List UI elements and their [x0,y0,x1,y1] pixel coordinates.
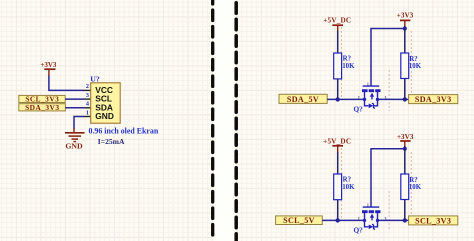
svg-text:+3V3: +3V3 [397,133,414,141]
wire bus left segment [327,98,364,100]
svg-text:R?: R? [409,56,418,63]
svg-text:+5V_DC: +5V_DC [323,17,351,25]
compile marker dash right of Q2 [388,191,390,231]
svg-text:3: 3 [385,96,387,100]
wire +3V3 to VCC pin [49,76,84,91]
svg-text:Q?: Q? [354,226,364,235]
pin number marks Q1 [358,82,387,100]
wire gate feed (bottom) [371,149,405,208]
resistor R2 10K [401,53,422,79]
pin 3 SCL [84,92,91,99]
svg-text:1: 1 [86,109,89,116]
junction gate feed [403,26,407,30]
wire gate feed [371,29,405,87]
power +3V3 (bottom right) [397,133,414,147]
pin 2 VCC [84,83,91,90]
power +5V_DC (top) [323,17,351,32]
svg-text:0.96 inch oled Ekran: 0.96 inch oled Ekran [89,127,159,136]
pin 1 GND [84,109,91,116]
power +3V3 (left section) [40,61,57,76]
svg-text:SCL_5V: SCL_5V [283,216,315,225]
compile marker dash near R4 [410,152,412,220]
svg-text:2: 2 [358,217,360,221]
svg-text:+5V_DC: +5V_DC [323,137,351,145]
wire +3V3 to junction (bottom) [404,146,406,150]
svg-text:1: 1 [367,82,369,86]
junction at R4/bus [403,218,407,222]
port SCL_3V3 (left) [19,95,65,104]
junction gate feed (bottom) [403,147,407,151]
svg-text:10K: 10K [342,184,355,191]
svg-text:SDA_5V: SDA_5V [287,95,319,104]
compile marker dash near R2 [410,31,412,99]
svg-text:R?: R? [409,177,418,184]
svg-text:10K: 10K [342,63,355,70]
svg-text:SCL_3V3: SCL_3V3 [415,216,451,225]
svg-text:1: 1 [367,203,369,207]
transistor Q1 (MOSFET) [362,86,381,108]
wire bus left segment (bottom) [322,219,364,221]
svg-text:I=25mA: I=25mA [98,137,125,146]
background gap between sheets [213,0,237,241]
wire +5V_DC to R1 [337,31,339,53]
resistor R1 10K [334,53,355,79]
pin number marks Q2 [358,203,387,221]
port SDA_5V [279,94,327,104]
pin 4 SDA [84,101,91,108]
wire R3 to bus [337,200,339,221]
power +3V3 (top right) [397,12,414,28]
wire junction to R4 [404,149,406,175]
wire bus right segment (bottom) [378,219,409,221]
junction at R2/bus [403,97,407,101]
wire R4 to bus [404,200,406,221]
resistor R3 10K [334,174,355,200]
background right sheet [236,0,474,241]
svg-text:Q?: Q? [354,105,364,114]
svg-text:+3V3: +3V3 [397,12,414,20]
svg-text:10K: 10K [409,184,422,191]
svg-text:U?: U? [90,75,100,84]
svg-text:4: 4 [86,101,89,108]
svg-text:SDA_3V3: SDA_3V3 [415,95,452,104]
wire GND pin to ground [74,117,84,130]
compile marker dash right of Q1 [388,70,390,111]
wire junction to R2 [404,29,406,54]
junction at R3/bus [336,218,340,222]
dashed sheet edge left [211,0,214,241]
svg-text:2: 2 [358,96,360,100]
svg-text:GND: GND [95,111,114,121]
svg-text:2: 2 [86,83,89,90]
dashed sheet edge right [234,0,238,241]
transistor Q2 (MOSFET) [362,207,381,229]
port SDA_3V3 (left) [19,103,66,112]
svg-text:3: 3 [385,217,387,221]
junction at R1/bus [336,97,340,101]
wire +3V3 to junction [404,26,406,30]
background left sheet [0,0,213,241]
ground GND [65,128,85,150]
wire +5V_DC to R3 [337,152,339,175]
IC U? body [91,83,121,123]
wire R1 to bus [337,79,339,100]
svg-text:+3V3: +3V3 [40,61,57,69]
resistor R4 10K [401,174,422,200]
port SCL_5V [276,216,323,225]
svg-text:10K: 10K [409,63,422,70]
wire SDA port to pin 4 [65,107,83,109]
port SDA_3V3 (right) [409,95,458,104]
power +5V_DC (bottom) [323,137,351,152]
compile marker dash near R1 [340,27,342,97]
svg-text:R?: R? [343,177,352,184]
svg-text:R?: R? [343,56,352,63]
compile marker dash near R3 [340,148,342,218]
wire bus right segment [378,98,409,100]
port SCL_3V3 (right) [409,216,458,225]
svg-text:3: 3 [86,92,89,99]
wire R2 to bus [404,79,406,100]
wire SCL port to pin 3 [65,98,84,100]
svg-text:SDA_3V3: SDA_3V3 [25,103,59,112]
svg-text:GND: GND [65,141,83,150]
